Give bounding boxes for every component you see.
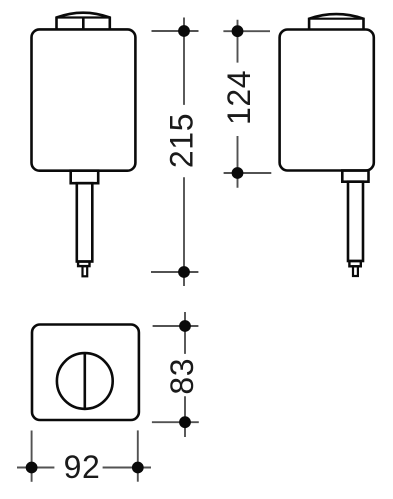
dimension 215 line [183, 18, 185, 287]
bottom view circle seam [84, 353, 87, 409]
bottom view circle [57, 353, 113, 409]
pump step side view [349, 261, 360, 266]
dimension 215 top dot [178, 25, 190, 37]
bottom view plate [32, 325, 139, 421]
dimension 92 left tick [31, 431, 33, 482]
dimension 215 bottom dot [178, 266, 190, 278]
dispenser front view body [32, 29, 136, 170]
dimension 215 top tick [152, 30, 199, 32]
dimension 92 line [17, 467, 151, 469]
svg-text:83: 83 [164, 358, 200, 395]
svg-text:215: 215 [163, 113, 199, 168]
pump collar side view [342, 171, 368, 182]
dimension 124 top tick [223, 30, 270, 32]
pump tube front view [77, 183, 93, 261]
svg-text:92: 92 [64, 449, 101, 485]
pump tip front view [83, 266, 88, 276]
dimension 124 bottom dot [232, 167, 244, 179]
dimension 92 right tick [137, 430, 139, 481]
dispenser front view cap rim line [57, 16, 110, 18]
pump step front view [78, 262, 89, 267]
dimension 83 line [184, 312, 186, 437]
dimension 215 bottom tick [151, 271, 198, 273]
dimension 92 left dot [26, 462, 38, 474]
dispenser front view cap [57, 13, 110, 30]
dimension 124 line [237, 20, 239, 188]
dispenser front view cap seam [82, 18, 85, 30]
pump collar front view [71, 171, 99, 184]
dispenser side view cap [309, 14, 363, 29]
dimension 124 bottom tick [224, 172, 272, 174]
dispenser side view cap rim line [309, 18, 363, 20]
dimension 92 right dot [132, 462, 144, 474]
dimension 83 top dot [179, 320, 191, 332]
svg-text:124: 124 [221, 70, 257, 125]
pump tube side view [348, 182, 363, 261]
dimension 83 bottom tick [152, 421, 199, 423]
dimension 124 top dot [232, 25, 244, 37]
dimension 83 bottom dot [179, 416, 191, 428]
dispenser side view body [280, 30, 374, 171]
dimension 83 top tick [153, 325, 199, 327]
pump tip side view [353, 266, 358, 276]
